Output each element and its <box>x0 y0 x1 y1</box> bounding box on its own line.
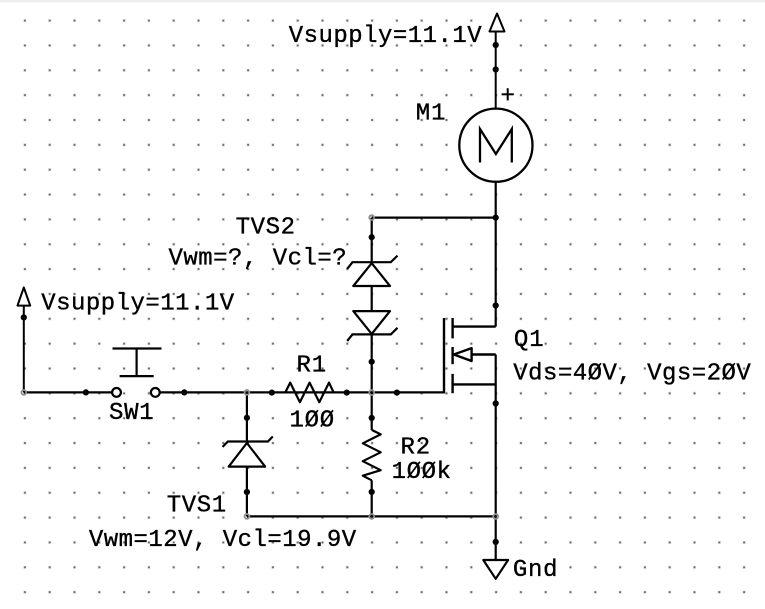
node marker SW tee <box>245 390 250 395</box>
svg-text:TVS1: TVS1 <box>167 492 226 519</box>
wire <box>23 306 25 393</box>
node marker rail left <box>245 514 250 519</box>
wire <box>371 480 373 516</box>
node marker TVS2 corner <box>369 215 374 220</box>
TVS2 bidirectional <box>347 218 397 393</box>
wire <box>371 286 373 311</box>
junction dot <box>269 390 275 396</box>
wire branch to TVS2 <box>372 217 496 219</box>
junction dot <box>181 389 187 395</box>
svg-text:R1: R1 <box>297 352 327 379</box>
wire motor bottom to drain <box>495 182 497 327</box>
svg-text:Q1: Q1 <box>514 327 544 354</box>
polarity + <box>502 88 514 100</box>
wire source down <box>495 355 497 561</box>
svg-text:Vds=4ØV, Vgs=2ØV: Vds=4ØV, Vgs=2ØV <box>513 360 751 387</box>
junction dot <box>369 489 375 495</box>
svg-text:M1: M1 <box>416 101 446 128</box>
power flag VCC top Vsupply <box>490 14 505 110</box>
junction dot <box>493 66 499 72</box>
svg-text:1ØØ: 1ØØ <box>290 407 335 434</box>
svg-text:1ØØk: 1ØØk <box>392 459 451 486</box>
svg-text:Vsupply=11.1V: Vsupply=11.1V <box>289 23 483 50</box>
wire switch to gate <box>160 391 444 393</box>
junction dot <box>493 302 499 308</box>
diode triangle <box>229 443 265 467</box>
wire <box>371 218 373 263</box>
switch SW1 push button <box>112 349 161 397</box>
wire left rail to switch <box>24 391 112 393</box>
junction dot <box>369 359 375 365</box>
node marker left corner <box>21 390 26 395</box>
channel segment top <box>451 318 453 338</box>
junction dot <box>394 390 400 396</box>
svg-text:TVS2: TVS2 <box>236 215 295 242</box>
svg-text:Vsupply=11.1V: Vsupply=11.1V <box>41 290 235 317</box>
node marker rail right <box>493 514 498 519</box>
svg-text:SW1: SW1 <box>109 400 154 427</box>
junction dot <box>83 389 89 395</box>
source pin <box>453 383 496 385</box>
body pin <box>472 353 496 355</box>
ground <box>483 560 508 579</box>
svg-text:Vwm=?, Vcl=?: Vwm=?, Vcl=? <box>169 245 347 272</box>
junction dot <box>493 400 499 406</box>
junction dot <box>493 215 499 221</box>
wire <box>246 467 248 517</box>
svg-text:Gnd: Gnd <box>513 557 558 584</box>
node marker R1 cross <box>369 390 374 395</box>
cathode bar <box>223 437 273 447</box>
junction dot <box>21 314 27 320</box>
node marker rail R2 <box>369 514 374 519</box>
drain pin <box>453 325 496 327</box>
junction dot <box>244 489 250 495</box>
body diode arrow <box>454 348 472 361</box>
wire <box>371 393 373 430</box>
gate bar <box>443 318 445 394</box>
resistor R1 <box>285 383 334 403</box>
junction dot <box>493 539 499 545</box>
svg-text:Vwm=12V, Vcl=19.9V: Vwm=12V, Vcl=19.9V <box>89 527 357 554</box>
diode D2a triangle <box>353 263 390 286</box>
power flag VCC left Vsupply <box>18 288 31 393</box>
junction dot <box>344 390 350 396</box>
junction dot <box>369 415 375 421</box>
TVS1 <box>223 392 273 516</box>
resistor R2 <box>363 393 381 517</box>
junction dot <box>493 42 499 48</box>
channel segment middle <box>451 347 453 364</box>
junction dot <box>244 415 250 421</box>
svg-text:R2: R2 <box>401 435 431 462</box>
wire ground rail <box>247 515 496 517</box>
diode D2b triangle <box>353 311 390 334</box>
motor M1 <box>459 109 532 182</box>
cathode bar bottom <box>347 328 397 341</box>
channel segment bottom <box>451 374 453 393</box>
junction dot <box>369 234 375 240</box>
wire <box>371 334 373 392</box>
wire <box>246 392 248 443</box>
cathode bar top <box>347 256 397 269</box>
transistor Q1 n-mosfet <box>444 318 496 394</box>
wire <box>495 32 497 110</box>
